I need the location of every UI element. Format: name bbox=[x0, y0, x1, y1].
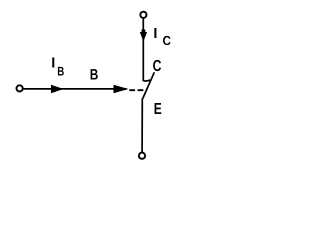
terminal circle: base input bbox=[17, 85, 23, 91]
wire: collector vertical lead bbox=[142, 18, 144, 81]
switch lever (transistor C-E modeled as switch) bbox=[143, 72, 155, 98]
arrowhead: base current direction (at base) bbox=[114, 85, 129, 94]
svg-text:E: E bbox=[154, 101, 162, 118]
svg-text:I: I bbox=[153, 26, 157, 42]
svg-text:I: I bbox=[51, 55, 55, 71]
terminal circle: emitter bbox=[139, 153, 145, 159]
arrowhead: base current direction (left) bbox=[51, 85, 64, 94]
wire: base horizontal lead bbox=[23, 88, 127, 90]
svg-text:B: B bbox=[57, 64, 64, 78]
wire: emitter vertical lead bbox=[141, 99, 143, 153]
switch fixed contact hook bbox=[143, 79, 150, 82]
svg-text:C: C bbox=[163, 33, 172, 48]
terminal circle: collector bbox=[140, 12, 146, 18]
svg-text:B: B bbox=[90, 66, 99, 83]
wire: dashed control link from base to switch bbox=[129, 89, 143, 91]
arrowhead: collector current direction (down) bbox=[140, 30, 147, 42]
